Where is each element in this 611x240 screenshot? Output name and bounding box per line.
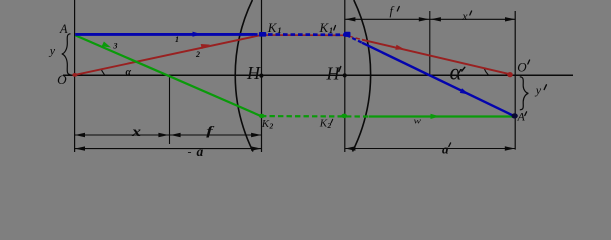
svg-text:y: y — [49, 44, 56, 58]
svg-text:y: y — [535, 83, 542, 97]
svg-text:K: K — [267, 20, 278, 35]
svg-text:a: a — [197, 144, 204, 159]
svg-text:w: w — [414, 116, 422, 126]
svg-text:K: K — [319, 118, 328, 130]
svg-text:A: A — [517, 110, 526, 124]
svg-text:1: 1 — [329, 26, 333, 35]
svg-text:3: 3 — [113, 42, 118, 51]
svg-text:x: x — [461, 9, 468, 23]
svg-text:x: x — [131, 125, 141, 140]
svg-text:2: 2 — [195, 50, 200, 59]
svg-text:1: 1 — [175, 35, 179, 44]
svg-text:H: H — [246, 63, 261, 83]
svg-text:a: a — [442, 142, 449, 157]
svg-text:α: α — [126, 67, 132, 78]
svg-text:1: 1 — [278, 26, 282, 35]
svg-text:2: 2 — [269, 122, 274, 131]
svg-text:H: H — [326, 64, 341, 84]
svg-text:O: O — [517, 60, 527, 75]
svg-text:-: - — [188, 144, 192, 158]
svg-text:K: K — [319, 20, 330, 35]
svg-text:O: O — [57, 72, 67, 87]
svg-text:α: α — [450, 60, 463, 85]
svg-text:K: K — [261, 118, 270, 130]
svg-text:A: A — [59, 21, 67, 36]
